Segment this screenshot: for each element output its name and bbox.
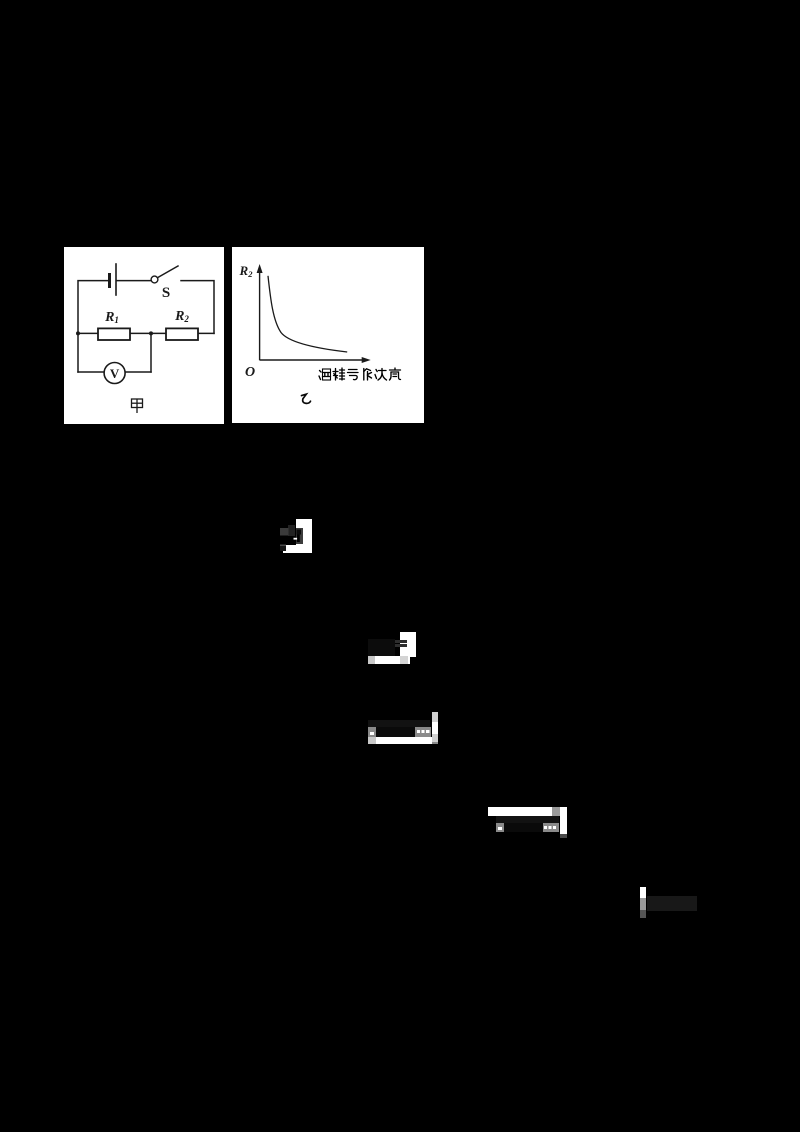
x axis arrowhead [362, 357, 371, 363]
panel 乙: R2 vs alcohol concentration graph [232, 247, 424, 423]
switch S [151, 276, 158, 283]
y axis [259, 268, 261, 360]
formula fragment E (torn equation image) [640, 887, 697, 918]
wire switch to corner [181, 281, 214, 334]
panel 甲: circuit schematic [64, 247, 224, 424]
node left junction [76, 331, 80, 335]
svg-text:R2: R2 [174, 309, 189, 324]
wire battery to switch [117, 280, 151, 282]
resistor R1 [98, 328, 130, 340]
wire top-left [78, 281, 108, 372]
voltmeter V [104, 363, 125, 384]
label 酒精气体浓度 (x axis) [319, 368, 401, 380]
node middle junction [149, 331, 153, 335]
formula fragment B (torn equation image) [368, 632, 416, 664]
x axis [260, 359, 366, 361]
wire node to voltmeter row [150, 333, 152, 372]
y axis arrowhead [257, 264, 263, 273]
battery B1 [108, 275, 111, 287]
svg-text:O: O [245, 365, 255, 380]
svg-text:R1: R1 [104, 310, 119, 325]
label 乙 [302, 394, 311, 403]
svg-text:V: V [110, 366, 120, 381]
curve R2 vs concentration [268, 276, 347, 352]
svg-text:S: S [162, 285, 170, 301]
label 甲 [132, 399, 143, 414]
wire middle row [78, 332, 214, 334]
svg-text:R2: R2 [239, 263, 254, 279]
formula fragment A (torn equation image) [280, 519, 312, 553]
wire voltmeter row [78, 371, 104, 373]
formula fragment C (torn equation image) [368, 712, 438, 744]
formula fragment D (torn equation image) [488, 807, 567, 838]
resistor R2 [166, 328, 198, 340]
